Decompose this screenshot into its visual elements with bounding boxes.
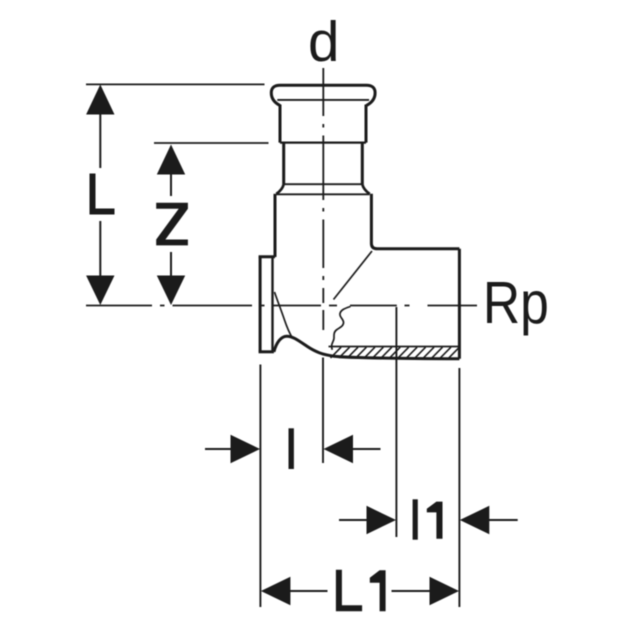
inner bore curve — [275, 292, 293, 337]
svg-text:d: d — [308, 10, 339, 73]
dimension l1 — [339, 519, 367, 521]
flare to body left — [276, 184, 283, 194]
shoulder line lower — [277, 193, 370, 195]
stub left wall — [259, 257, 262, 352]
flare to body right — [362, 184, 369, 194]
centerline horizontal (dash-dot) — [86, 305, 477, 307]
stub right wall — [271, 258, 273, 352]
body right wall + corner to outlet top — [371, 194, 459, 249]
extension line top (for L) — [86, 83, 265, 85]
hatch lines — [331, 347, 460, 358]
bead bottom edge — [277, 99, 369, 101]
centerline vertical (dash-dot) — [322, 68, 324, 330]
dimension L — [99, 113, 101, 277]
dimension L1 — [261, 577, 459, 605]
dimension Z — [170, 174, 172, 277]
section diagonal line — [334, 251, 373, 300]
extension lines — [260, 307, 459, 607]
shoulder line upper — [284, 183, 362, 185]
label Z — [156, 203, 188, 246]
label L — [90, 174, 115, 215]
press bead (top socket) — [271, 85, 375, 105]
svg-text:Rp: Rp — [483, 270, 549, 336]
label l — [289, 428, 294, 469]
thread band top line — [329, 346, 460, 348]
dimension l — [205, 448, 233, 450]
label l1 : 1 — [427, 502, 443, 539]
label L1 : 1 — [370, 570, 386, 611]
elbow bottom swoosh to outlet bottom — [274, 336, 460, 359]
label L1 : L — [336, 570, 362, 612]
body left wall — [274, 194, 277, 257]
outlet right end face — [458, 249, 461, 359]
wavy break line — [332, 307, 351, 350]
socket walls lower — [284, 143, 363, 185]
stub bottom — [259, 350, 274, 353]
label l1 : l — [413, 499, 418, 539]
extension line for Z — [154, 142, 269, 144]
socket walls upper — [280, 105, 366, 143]
stub top — [259, 255, 275, 258]
internal step line — [280, 142, 366, 144]
